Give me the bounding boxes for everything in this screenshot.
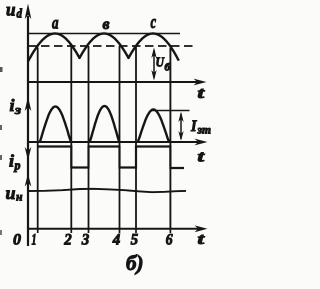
i_з hump 2: [90, 106, 120, 143]
svg-text:зт: зт: [197, 123, 211, 137]
grid line 2: [70, 46, 72, 228]
svg-text:4: 4: [112, 232, 120, 249]
t-axis plot1: [27, 81, 197, 83]
axis arrow u_d: [25, 4, 32, 20]
i_з axis arrow: [25, 97, 32, 112]
curve u_d: [28, 34, 179, 62]
svg-text:1: 1: [32, 232, 37, 249]
grid line 3: [88, 46, 90, 228]
svg-text:2: 2: [63, 232, 71, 249]
svg-text:5: 5: [131, 232, 139, 249]
bottom t-axis: [27, 228, 198, 230]
svg-text:б): б): [126, 251, 143, 275]
U_b arrow: [153, 50, 155, 78]
svg-text:t: t: [198, 149, 205, 166]
t-axis plot2: [27, 141, 198, 143]
svg-text:0: 0: [13, 232, 21, 249]
dashed line U_b level: [28, 45, 193, 47]
grid line 6: [169, 48, 171, 228]
peak bar I_зт: [151, 110, 190, 112]
svg-text:U: U: [156, 56, 165, 71]
svg-text:a: a: [52, 13, 59, 33]
svg-text:d: d: [17, 6, 23, 21]
edge specks: [0, 67, 3, 72]
svg-text:i: i: [10, 96, 15, 115]
svg-text:р: р: [14, 158, 21, 173]
ticks below bottom axis: [37, 229, 39, 233]
vertical axis: [27, 16, 29, 246]
svg-text:t: t: [198, 85, 205, 102]
grid line 4: [119, 46, 121, 228]
svg-text:c: c: [151, 12, 157, 33]
svg-text:t: t: [198, 231, 205, 248]
I_зт arrow: [180, 114, 182, 140]
i_з hump 1: [40, 107, 72, 143]
u_н axis arrow (up): [25, 174, 32, 187]
svg-text:б: б: [165, 62, 171, 74]
peak level line plot1: [28, 33, 180, 35]
svg-text:в: в: [103, 16, 110, 33]
svg-text:u: u: [6, 0, 16, 20]
i_p waveform: [38, 147, 184, 169]
i_з hump 3: [138, 110, 170, 143]
svg-text:н: н: [16, 190, 23, 204]
svg-text:u: u: [6, 183, 16, 203]
svg-text:з: з: [14, 102, 21, 117]
svg-text:3: 3: [81, 232, 89, 249]
svg-text:I: I: [190, 118, 197, 135]
grid line 5: [135, 46, 137, 228]
svg-text:6: 6: [166, 232, 173, 249]
u_н waveform: [28, 189, 186, 192]
grid line 1: [37, 48, 39, 229]
svg-text:i: i: [9, 152, 14, 171]
i_p axis arrow (down): [25, 147, 32, 161]
